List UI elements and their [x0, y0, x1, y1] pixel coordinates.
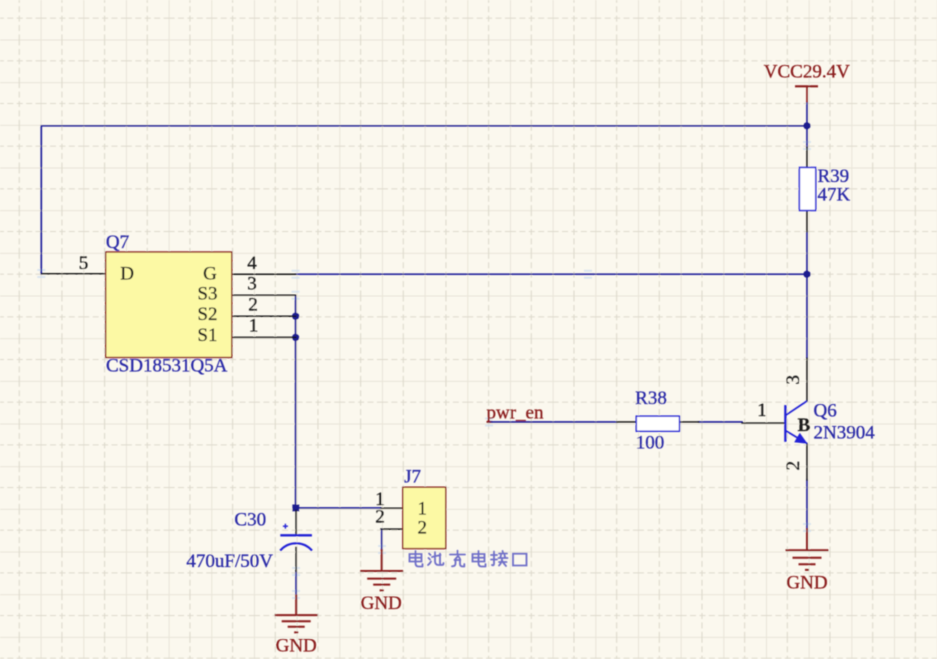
svg-text:S1: S1 — [197, 325, 217, 346]
svg-text:4: 4 — [247, 253, 257, 274]
svg-text:S3: S3 — [197, 283, 217, 304]
svg-text:470uF/50V: 470uF/50V — [186, 551, 273, 572]
svg-text:D: D — [120, 264, 134, 285]
svg-text:1: 1 — [757, 400, 767, 421]
svg-text:3: 3 — [247, 274, 257, 295]
svg-text:1: 1 — [418, 498, 428, 519]
svg-text:3: 3 — [783, 375, 804, 385]
svg-text:2: 2 — [418, 517, 428, 538]
svg-text:CSD18531Q5A: CSD18531Q5A — [106, 356, 228, 377]
svg-text:47K: 47K — [818, 185, 851, 206]
svg-text:C30: C30 — [234, 510, 266, 531]
svg-text:S2: S2 — [197, 304, 217, 325]
svg-text:1: 1 — [249, 315, 259, 336]
svg-text:B: B — [798, 415, 811, 436]
svg-text:VCC29.4V: VCC29.4V — [764, 62, 850, 83]
svg-text:G: G — [203, 264, 217, 285]
svg-text:Q7: Q7 — [106, 232, 129, 253]
svg-text:100: 100 — [636, 432, 665, 453]
svg-text:GND: GND — [361, 593, 402, 614]
svg-text:2: 2 — [783, 461, 804, 471]
svg-text:5: 5 — [79, 253, 89, 274]
svg-text:2: 2 — [248, 294, 258, 315]
svg-text:R38: R38 — [635, 388, 667, 409]
svg-text:J7: J7 — [404, 466, 421, 487]
svg-text:2N3904: 2N3904 — [814, 422, 876, 443]
svg-text:2: 2 — [375, 507, 385, 528]
svg-text:GND: GND — [276, 635, 317, 656]
svg-text:pwr_en: pwr_en — [487, 402, 544, 423]
svg-text:Q6: Q6 — [814, 401, 837, 422]
svg-text:GND: GND — [786, 572, 827, 593]
